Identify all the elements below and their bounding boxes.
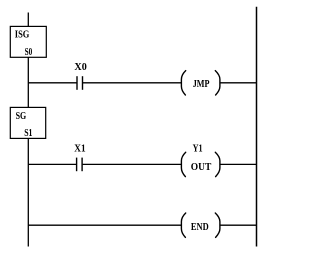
- svg-text:OUT: OUT: [191, 162, 212, 173]
- svg-text:X0: X0: [74, 62, 86, 73]
- svg-text:Y1: Y1: [193, 144, 203, 155]
- svg-text:SG: SG: [16, 111, 27, 122]
- svg-text:S0: S0: [25, 47, 33, 58]
- svg-text:X1: X1: [74, 143, 85, 154]
- svg-text:JMP: JMP: [193, 79, 210, 90]
- svg-text:S1: S1: [24, 128, 32, 139]
- svg-text:END: END: [191, 222, 209, 233]
- svg-text:ISG: ISG: [15, 30, 30, 41]
